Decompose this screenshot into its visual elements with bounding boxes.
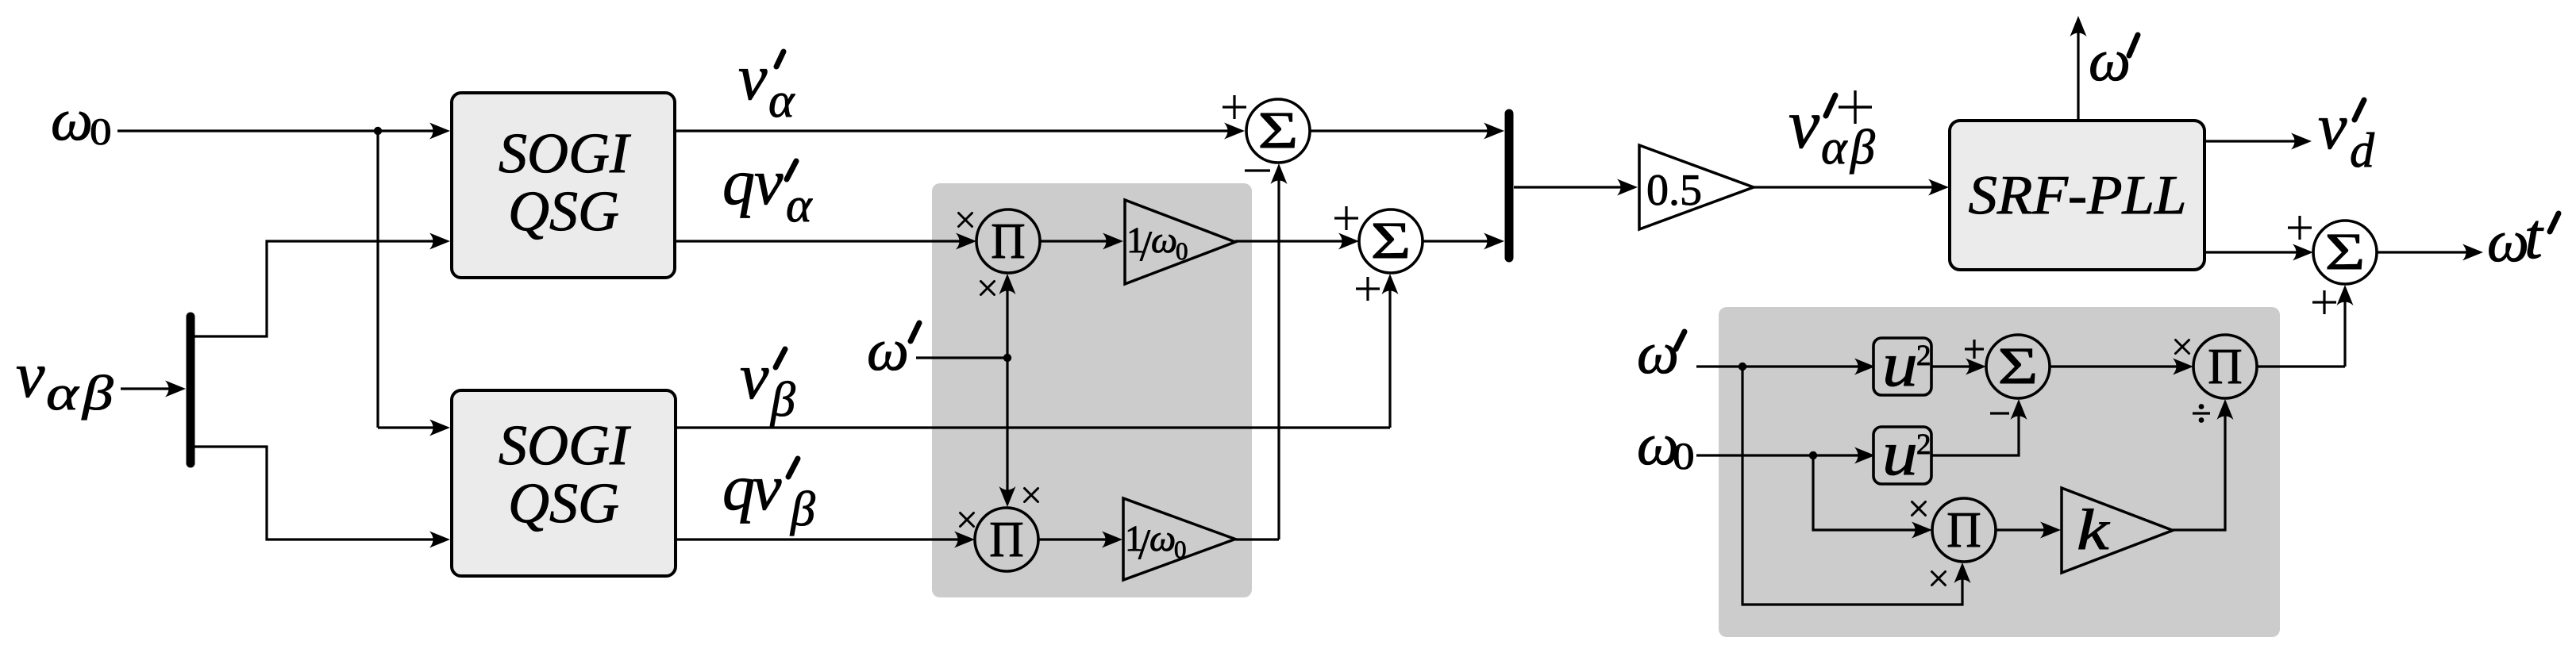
svg-text:v: v xyxy=(2318,90,2347,163)
svg-text:α: α xyxy=(768,74,795,128)
svg-text:Π: Π xyxy=(2208,338,2242,394)
svg-text:ω: ω xyxy=(2487,209,2529,275)
svg-text:0: 0 xyxy=(1176,237,1188,265)
svg-text:0: 0 xyxy=(90,111,112,153)
svg-text:0.5: 0.5 xyxy=(1646,166,1702,215)
svg-text:ω: ω xyxy=(1151,220,1177,261)
svg-text:u: u xyxy=(1882,330,1918,400)
svg-text:β: β xyxy=(770,373,795,427)
svg-text:ω: ω xyxy=(2089,28,2131,94)
svg-text:d: d xyxy=(2350,124,2375,178)
svg-text:2: 2 xyxy=(1916,428,1931,461)
svg-text:ω: ω xyxy=(1637,321,1679,386)
svg-text:u: u xyxy=(1882,419,1918,489)
svg-text:Π: Π xyxy=(991,213,1025,269)
svg-text:ω: ω xyxy=(51,87,93,153)
svg-text:/: / xyxy=(1138,520,1150,568)
svg-text:Σ: Σ xyxy=(1998,337,2039,395)
svg-text:Σ: Σ xyxy=(1258,102,1299,159)
svg-text:Σ: Σ xyxy=(1371,212,1411,270)
svg-text:v: v xyxy=(738,41,768,113)
svg-text:0: 0 xyxy=(1673,436,1695,478)
svg-text:v: v xyxy=(1789,86,1820,163)
svg-text:q: q xyxy=(722,451,755,524)
svg-text:α: α xyxy=(46,367,80,420)
svg-text:ω: ω xyxy=(867,317,909,383)
svg-text:α: α xyxy=(1821,121,1848,175)
svg-text:2: 2 xyxy=(1916,340,1931,372)
svg-text:v: v xyxy=(740,340,769,413)
svg-text:SOGI: SOGI xyxy=(499,413,631,477)
svg-text:q: q xyxy=(722,146,755,218)
svg-text:α: α xyxy=(786,179,813,232)
svg-text:Σ: Σ xyxy=(2325,223,2366,281)
svg-text:Π: Π xyxy=(1946,501,1981,558)
svg-text:SOGI: SOGI xyxy=(499,121,631,185)
svg-text:t: t xyxy=(2524,200,2544,272)
svg-text:β: β xyxy=(790,482,815,536)
svg-text:β: β xyxy=(1850,121,1875,175)
svg-text:0: 0 xyxy=(1174,536,1187,563)
svg-text:QSG: QSG xyxy=(508,471,619,535)
svg-text:SRF-PLL: SRF-PLL xyxy=(1968,165,2186,226)
svg-text:k: k xyxy=(2077,497,2111,562)
svg-text:Π: Π xyxy=(989,511,1023,567)
svg-text:/: / xyxy=(1140,222,1152,270)
svg-text:β: β xyxy=(82,367,114,420)
svg-text:v: v xyxy=(753,451,782,524)
svg-text:QSG: QSG xyxy=(508,179,619,243)
svg-text:ω: ω xyxy=(1149,518,1176,559)
svg-text:v: v xyxy=(754,146,784,218)
svg-text:v: v xyxy=(16,339,45,411)
